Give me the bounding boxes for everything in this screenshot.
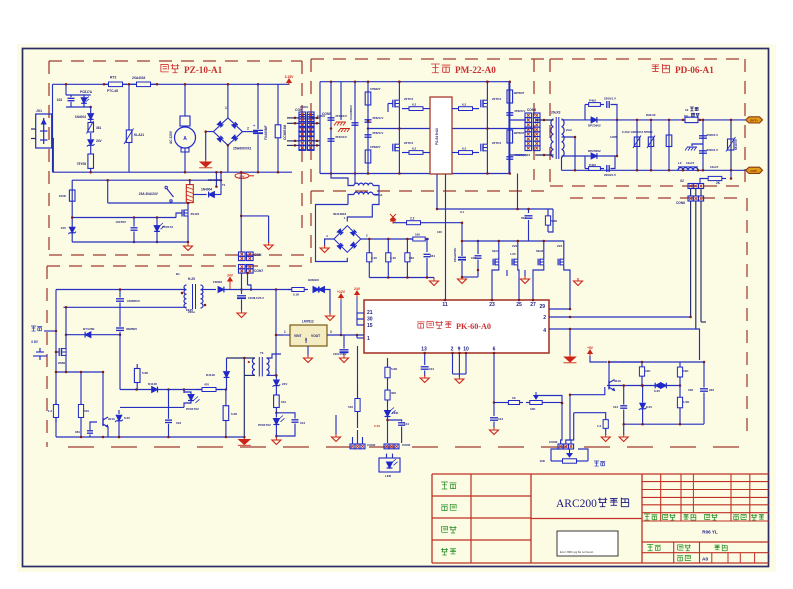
wire LM7812 out [327, 334, 364, 336]
svg-text:104: 104 [429, 367, 434, 371]
wire bridge right to cap [242, 131, 258, 133]
optocoupler PC817A relay [156, 218, 158, 226]
mosfet Q2 top-right [480, 100, 482, 108]
svg-text:6.2V: 6.2V [124, 416, 130, 420]
svg-text:DPZ5602: DPZ5602 [588, 149, 601, 153]
wire contact vertical [107, 180, 109, 203]
wire module bottom out [436, 174, 438, 209]
wire pin29 [549, 308, 570, 310]
fan motor AC 220V [184, 84, 186, 116]
wire driver net stub [569, 316, 572, 319]
svg-text:EE25: EE25 [186, 308, 193, 312]
varistor column a [636, 120, 638, 170]
ground open fb [275, 436, 277, 438]
wire aux rail B [64, 306, 186, 308]
snubber diode BYV26E [85, 332, 91, 338]
wire fb primary left [227, 357, 256, 359]
svg-text:9013: 9013 [108, 417, 115, 421]
svg-text:VINT: VINT [294, 334, 302, 338]
svg-text:R06 YL: R06 YL [702, 530, 718, 535]
resistor column c [668, 120, 670, 170]
svg-text:SE34: SE34 [536, 249, 544, 253]
svg-text:BYV26E: BYV26E [83, 327, 95, 331]
svg-text:2: 2 [543, 315, 546, 321]
diode D4148 row1 [152, 387, 158, 393]
ground filled bridge [205, 159, 207, 162]
junction secondary [275, 288, 278, 291]
wire 2.2 to down [427, 223, 462, 241]
svg-text:PM-22-A0: PM-22-A0 [455, 65, 496, 75]
svg-text:1/2W: 1/2W [610, 135, 617, 139]
ground open 100uF [461, 276, 463, 279]
capacitor 561 [426, 238, 429, 241]
svg-text:10u15: 10u15 [710, 165, 719, 169]
svg-text:2SK2225: 2SK2225 [208, 178, 220, 182]
title bottom board PZ-10-A1 [161, 64, 169, 72]
wire HV- rail top board [320, 173, 509, 175]
wire pin2 long [549, 316, 691, 318]
svg-text:5.6K: 5.6K [391, 367, 398, 371]
wire pin13 down [424, 353, 426, 365]
svg-text:GND: GND [305, 337, 308, 343]
svg-text:X2: X2 [680, 179, 684, 183]
transformer aux H-25 [184, 285, 187, 308]
bridge rectifier 25A600VX2 [213, 118, 242, 145]
svg-text:104: 104 [498, 417, 503, 421]
inductor 300u1 coupled [354, 174, 356, 184]
svg-text:100uF/50V: 100uF/50V [453, 248, 457, 262]
svg-text:3 8V: 3 8V [31, 340, 39, 344]
resistor 1K pin6 [505, 402, 508, 404]
svg-text:BPW07: BPW07 [514, 131, 525, 135]
svg-text:3.15V: 3.15V [285, 75, 295, 79]
capacitor 4T823V a [365, 119, 372, 121]
wire secondary bottom rail [562, 169, 746, 171]
svg-text:681: 681 [75, 430, 80, 434]
svg-text:20TC3: 20TC3 [404, 141, 413, 145]
wires into CON2 [352, 437, 354, 444]
capacitor 3000-1V X2 lower [699, 150, 707, 152]
capacitor 504 [528, 209, 530, 213]
wire Q3 drain [398, 129, 400, 145]
wire pin4 ground stub [569, 329, 571, 355]
svg-text:510: 510 [84, 409, 89, 413]
svg-text:20TC3: 20TC3 [492, 141, 501, 145]
wire base row [607, 385, 680, 387]
svg-text:PC817X2: PC817X2 [258, 423, 271, 427]
title mid board PD-06-A1 [652, 65, 659, 72]
wire diode to bottom rail of main [220, 172, 222, 194]
ground open right b [623, 424, 625, 435]
svg-text:P402: P402 [589, 99, 596, 103]
thermistor KLA31 [128, 84, 130, 129]
ground open LM7812 [307, 355, 309, 358]
wire JX1 to rails [52, 139, 54, 173]
svg-text:100M50V: 100M50V [127, 299, 140, 303]
svg-text:510: 510 [281, 400, 286, 404]
wire LED to ground [325, 290, 331, 315]
connector CON6 [525, 113, 532, 118]
ground open right a [605, 434, 607, 437]
svg-text:2XA4033: 2XA4033 [132, 76, 146, 80]
svg-text:2.2: 2.2 [410, 217, 415, 221]
diode FR302 [202, 289, 216, 291]
transistor 9013 right [608, 381, 610, 390]
wire aux top rail [56, 289, 185, 291]
svg-text:12V: 12V [61, 226, 66, 230]
svg-text:10u15: 10u15 [686, 161, 695, 165]
svg-text:GREEN: GREEN [308, 278, 319, 282]
svg-text:21: 21 [367, 310, 373, 316]
svg-text:+5V: +5V [587, 346, 594, 350]
wires CON6 to transformer [535, 119, 553, 121]
svg-text:6: 6 [493, 347, 496, 353]
resistor bank 2.40 b [387, 239, 389, 250]
connector CON3 [558, 444, 563, 449]
svg-text:9013: 9013 [614, 379, 621, 383]
snubber capacitor 2200-1V top [606, 101, 608, 108]
svg-text:2SJ24: 2SJ24 [191, 212, 200, 216]
wire relay bottom rail [72, 241, 188, 243]
LED block bottom [379, 458, 400, 472]
svg-text:681C0V: 681C0V [734, 139, 738, 150]
resistor 5.6K panel [387, 364, 389, 367]
wire pin6 down [493, 353, 495, 403]
svg-text:104: 104 [613, 405, 618, 409]
svg-text:A0: A0 [702, 557, 708, 563]
mosfet relay driver [181, 210, 183, 217]
wires CON5 to top board [310, 117, 320, 119]
wire fb secondary top [267, 354, 282, 358]
ground open relay mosfet [187, 243, 189, 246]
capacitor CCA985KZ [354, 82, 356, 174]
wire aux bottom rail [56, 436, 243, 438]
bridge rectifier IN4148X4 [334, 226, 361, 253]
resistor 100 horizontal mid [409, 238, 413, 240]
zener 24V fb [275, 375, 277, 379]
wire top rail bottom-board [53, 83, 257, 85]
control module PK-60-A0 [364, 300, 549, 353]
svg-text:2: 2 [451, 347, 454, 353]
wire branch to ground right [241, 215, 268, 217]
resistor gate Q3 [402, 152, 409, 154]
wire pot to transistor block [546, 402, 562, 404]
diode pair 6.2V mid [655, 383, 661, 389]
capacitor 100LF50V [340, 349, 349, 351]
resistor 10K a [641, 362, 643, 364]
connector CON bottom-board [299, 115, 306, 119]
svg-text:2m2: 2m2 [566, 128, 572, 132]
varistor 681C0V output [730, 120, 732, 170]
svg-text:4T3/1KV: 4T3/1KV [335, 135, 347, 139]
svg-text:OUT-: OUT- [750, 169, 757, 173]
resistor 470 [196, 389, 202, 391]
connector JX1 AC input [36, 114, 52, 148]
snubber capacitor bottom [606, 165, 608, 172]
svg-text:5.2K: 5.2K [231, 412, 238, 416]
svg-text:CON1: CON1 [300, 105, 308, 109]
resistor CC98B3M bleeder [277, 84, 279, 125]
wire HV+ rail top board [320, 81, 509, 83]
svg-text:2200/1.V: 2200/1.V [604, 97, 616, 101]
zener 6.2V aux [118, 410, 120, 414]
svg-text:D92-02: D92-02 [646, 113, 656, 117]
wire net A [536, 396, 562, 404]
svg-text:10K: 10K [530, 407, 536, 411]
svg-text:20TC3: 20TC3 [404, 97, 413, 101]
varistor 361 [88, 123, 94, 133]
svg-text:361: 361 [96, 126, 102, 130]
ground open drivers a [506, 270, 508, 276]
power red 24V mid [392, 220, 394, 224]
svg-text:PK-60-A0: PK-60-A0 [456, 322, 491, 331]
svg-text:29: 29 [539, 304, 545, 310]
chassis ground blue [692, 144, 703, 146]
wire fb secondary bottom to zener [267, 374, 277, 376]
capacitor 4T3-1KV upper [330, 82, 332, 174]
svg-text:1N4004: 1N4004 [201, 188, 212, 192]
svg-text:KLA31: KLA31 [134, 133, 144, 137]
wire left vertical [52, 84, 54, 172]
svg-text:4T823.V: 4T823.V [372, 116, 383, 120]
svg-text:6.2: 6.2 [462, 147, 467, 151]
svg-text:100LF50V: 100LF50V [333, 352, 347, 356]
resistor 5.1K [288, 289, 292, 291]
svg-text:FR302: FR302 [213, 280, 222, 284]
wires module left pins [357, 312, 364, 314]
connector CON stack [239, 252, 246, 256]
svg-text:300: 300 [391, 391, 396, 395]
wire row2 [120, 406, 184, 408]
svg-text:6.2: 6.2 [462, 103, 467, 107]
svg-text:Error: BMC.jpg file not found.: Error: BMC.jpg file not found. [560, 550, 594, 554]
svg-text:DPZ5602: DPZ5602 [588, 124, 601, 128]
svg-text:5.1K: 5.1K [293, 293, 300, 297]
relay coil red hatched [186, 185, 193, 203]
svg-text:1.2: 1.2 [48, 409, 53, 413]
svg-text:2.40: 2.40 [371, 256, 377, 260]
resistor 5.6K top right [547, 209, 549, 213]
resistor 1P68Z7 lower [365, 150, 371, 163]
sense resistor 510 [80, 372, 82, 400]
svg-text:LM7812: LM7812 [302, 320, 314, 324]
capacitor 104 fb2 [276, 413, 295, 419]
relay contact [165, 186, 167, 188]
svg-text:24V: 24V [227, 274, 234, 278]
svg-text:6.2V: 6.2V [646, 405, 652, 409]
svg-text:1P68Z7: 1P68Z7 [370, 87, 381, 91]
resistor BPW07 upper [509, 82, 511, 174]
capacitor 30M60V snubber [116, 327, 124, 329]
zener 24V [90, 133, 92, 139]
svg-text:CON8: CON8 [676, 201, 685, 205]
potentiometer wiper [526, 402, 530, 404]
svg-text:1UF50V: 1UF50V [115, 220, 126, 224]
svg-text:T3: T3 [260, 351, 264, 355]
resistor 1P68Z7 upper [367, 82, 369, 174]
svg-text:6.2V: 6.2V [654, 389, 660, 393]
svg-text:AC 220V: AC 220V [169, 130, 173, 144]
shunt resistor on top rail [685, 117, 698, 122]
ground open pin13 [424, 375, 426, 378]
connector CON7 stack [239, 265, 246, 269]
svg-text:T1: T1 [222, 183, 226, 187]
svg-text:PC817X2: PC817X2 [186, 407, 199, 411]
capacitor 103 input [65, 84, 67, 95]
title block left labels [441, 482, 448, 489]
svg-text:1.5K: 1.5K [683, 400, 690, 404]
sense resistors 1.2 [55, 400, 57, 405]
revision grid right [642, 481, 769, 483]
wire resistor bank bottom rail [369, 277, 434, 279]
chassis ground red [340, 82, 342, 120]
power red 24V aux [229, 280, 231, 284]
svg-text:2.4X2 1/2R CK2 5P69K: 2.4X2 1/2R CK2 5P69K [622, 130, 654, 134]
capacitor 104 right [620, 405, 627, 407]
svg-text:4: 4 [543, 328, 546, 334]
resistor 100K [69, 190, 75, 201]
title top board PM-22-A0 [431, 64, 440, 73]
svg-text:OUT+: OUT+ [750, 119, 758, 123]
svg-text:100K: 100K [59, 194, 67, 198]
svg-text:H-25: H-25 [188, 277, 195, 281]
wire pin6 net [494, 402, 505, 404]
ground open drivers b [524, 270, 526, 277]
capacitor 104 pin6 [493, 403, 495, 417]
svg-text:A: A [183, 136, 187, 142]
svg-text:23: 23 [489, 302, 495, 308]
svg-text:1: 1 [367, 336, 370, 342]
wire bottom rail bottom-board [53, 171, 293, 173]
wire relay top rail [72, 179, 221, 181]
capacitor 105 [477, 241, 479, 254]
capacitor 4T3-1KV lower [328, 138, 335, 140]
wire to LM7812 input [276, 290, 283, 336]
svg-text:1N4004: 1N4004 [75, 115, 86, 119]
wire CON7 down to aux [241, 273, 243, 289]
svg-text:20TC3: 20TC3 [492, 97, 501, 101]
resistor 510 vertical CON2 [357, 382, 359, 399]
main transformer 20uX3 [551, 119, 554, 157]
svg-text:24V: 24V [282, 382, 287, 386]
svg-text:103: 103 [176, 421, 181, 425]
svg-text:2.40: 2.40 [390, 256, 396, 260]
hanzi calib [594, 461, 599, 466]
capacitor 104 panel [388, 420, 402, 422]
ground open pin6 [493, 427, 495, 430]
ground open LED [329, 313, 331, 316]
svg-text:PC817A: PC817A [162, 225, 174, 229]
capacitor 100uF-50V [461, 241, 463, 256]
svg-text:20uX3: 20uX3 [551, 111, 561, 115]
capacitor 4T823V b [365, 134, 372, 136]
svg-text:CCA985KZ: CCA985KZ [349, 105, 353, 120]
net label red on bottom rail [235, 173, 249, 178]
diode DPZ5602 top [591, 117, 597, 123]
zener 6.2V right [640, 403, 646, 409]
svg-text:470: 470 [204, 383, 209, 387]
svg-text:75Y08: 75Y08 [77, 162, 86, 166]
wire Q2 source [486, 107, 488, 129]
resistor bank 560 [406, 239, 408, 250]
ground open left of CON2 [335, 415, 337, 435]
dashed box mid-board PD-06-A1 [550, 58, 745, 60]
resistor 1.2 right [605, 417, 607, 420]
ground filled aux [243, 437, 245, 440]
diode DPZ5602 bottom [591, 153, 597, 159]
wire top rail right segment [256, 83, 278, 85]
output terminal OUT- [746, 167, 763, 173]
wire pin1 [356, 335, 358, 338]
transistor 9014 aux [102, 418, 104, 426]
svg-text:1: 1 [225, 106, 227, 110]
snubber resistor P402 bottom [584, 156, 586, 169]
wire net pin6 to base [561, 403, 562, 444]
wire contact rail [108, 202, 190, 204]
resistor 510 fb [274, 395, 280, 408]
wire pin4 long [549, 329, 700, 360]
capacitor 1000uF25V [241, 290, 243, 295]
wire right vertical top board [508, 82, 510, 174]
wire bottom rail to relay rail [215, 172, 217, 186]
capacitor 4T823V right upper [506, 112, 513, 114]
svg-text:10K: 10K [688, 388, 694, 392]
LED GREEN [313, 287, 319, 293]
potentiometer 10K calib [551, 460, 563, 462]
svg-text:104: 104 [404, 422, 409, 426]
svg-text:25: 25 [516, 302, 522, 308]
svg-text:CC98B3M: CC98B3M [283, 125, 287, 140]
capacitor 103 fb [168, 390, 170, 419]
resistor gate Q1 [402, 108, 409, 110]
svg-text:CON4: CON4 [402, 443, 411, 447]
svg-text:5.6K: 5.6K [551, 219, 558, 223]
capacitor 100M50V snubber upper [119, 290, 121, 298]
capacitor 4T82B right lower [506, 156, 513, 158]
svg-text:11: 11 [442, 302, 448, 308]
connector CON5 [299, 112, 306, 117]
wire left vertical top board [319, 82, 321, 174]
svg-text:2: 2 [247, 127, 249, 131]
varistor column b [650, 120, 652, 170]
svg-text:FXA60MF: FXA60MF [264, 125, 268, 140]
resistor 2K [730, 170, 732, 178]
svg-text:30: 30 [367, 317, 373, 323]
svg-text:JX1: JX1 [36, 109, 42, 113]
wire 9014 base [90, 422, 97, 430]
svg-text:4T823.V: 4T823.V [514, 109, 525, 113]
wire bridge bottom [227, 145, 229, 172]
title block grid [432, 473, 769, 475]
ground open small bridge [324, 245, 326, 248]
capacitor 1UF50V [133, 218, 135, 227]
svg-text:1: 1 [284, 330, 286, 334]
wire link 362 row [609, 361, 704, 363]
resistor 2XA4033 [130, 83, 137, 85]
svg-text:25A 30A/24V: 25A 30A/24V [139, 192, 159, 196]
mosfet Q1 top-left [392, 100, 394, 108]
resistor gate Q4 [452, 152, 459, 154]
snubber resistor P402 top [584, 105, 586, 120]
capacitor 104 pin13 [421, 366, 429, 368]
wire mid horizontal H241 [462, 240, 545, 242]
svg-text:103: 103 [57, 98, 63, 102]
svg-text:PC817A: PC817A [80, 90, 93, 94]
svg-text:504: 504 [521, 216, 526, 220]
svg-text:PD-06-A1: PD-06-A1 [675, 65, 714, 75]
svg-text:BPW07: BPW07 [514, 91, 525, 95]
regulator LM7812 [290, 325, 327, 346]
